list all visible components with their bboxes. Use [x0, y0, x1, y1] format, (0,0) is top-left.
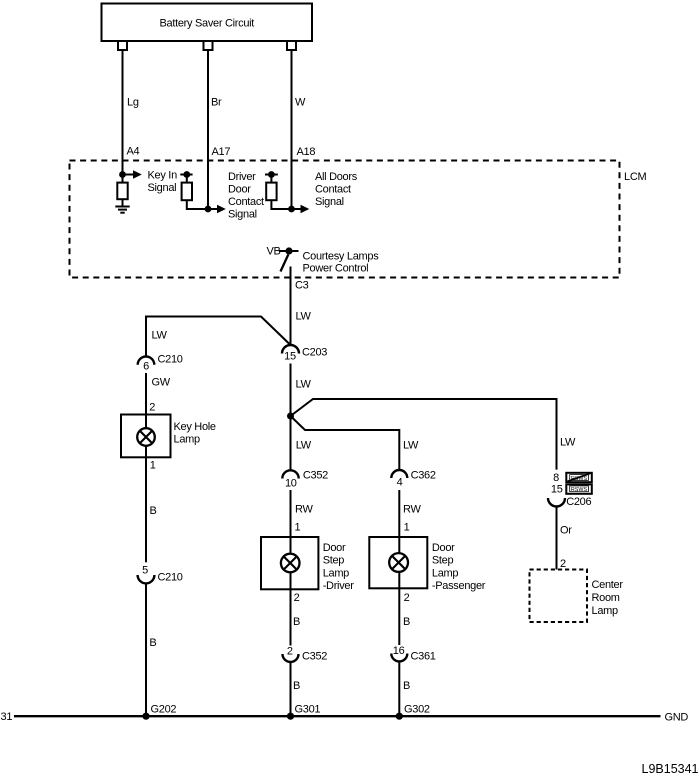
svg-text:C352: C352	[302, 651, 327, 663]
svg-text:-Passenger: -Passenger	[432, 580, 486, 592]
svg-text:1: 1	[295, 522, 301, 534]
svg-text:Lamp: Lamp	[432, 567, 458, 579]
label Door Step Lamp -Passenger	[432, 542, 486, 592]
node G301	[287, 704, 320, 720]
resistor all doors	[266, 183, 276, 201]
wire passenger lamp to C361	[398, 588, 400, 645]
svg-text:LW: LW	[560, 437, 576, 449]
svg-text:C210: C210	[158, 354, 183, 366]
svg-text:Lamp: Lamp	[174, 434, 200, 446]
svg-text:Step: Step	[432, 555, 454, 567]
connector C210 pin 5	[138, 565, 183, 584]
svg-text:8: 8	[553, 472, 559, 484]
svg-text:Center: Center	[592, 579, 624, 591]
wire Or	[556, 507, 558, 570]
ground bus 31	[14, 715, 661, 717]
wire C210 to G202	[145, 583, 147, 716]
svg-text:G302: G302	[404, 704, 430, 716]
node G302	[396, 704, 430, 720]
svg-text:2: 2	[287, 646, 293, 658]
connector C362 pin 4	[391, 470, 436, 489]
svg-text:2: 2	[404, 592, 410, 604]
svg-text:Lamp: Lamp	[323, 567, 349, 579]
resistor driver door	[182, 183, 192, 201]
svg-text:B: B	[149, 637, 156, 649]
svg-text:10: 10	[285, 478, 297, 490]
svg-text:VB: VB	[267, 246, 281, 258]
connector C352 pin 10	[282, 470, 328, 490]
svg-text:Courtesy Lamps: Courtesy Lamps	[303, 251, 380, 263]
svg-text:Battery Saver Circuit: Battery Saver Circuit	[160, 18, 255, 30]
wire Br	[207, 50, 209, 209]
svg-text:All Doors: All Doors	[315, 171, 358, 183]
node A17 junction	[205, 206, 212, 213]
svg-text:Room: Room	[592, 592, 620, 604]
ground	[115, 199, 129, 213]
svg-text:Lg: Lg	[127, 97, 139, 109]
all doors contact symbol	[265, 171, 278, 183]
wire all-doors resistor to junction	[271, 200, 291, 209]
svg-text:1: 1	[150, 460, 156, 472]
label Door Step Lamp -Driver	[323, 542, 355, 592]
door step lamp driver bulb	[281, 537, 300, 589]
svg-text:W: W	[295, 97, 306, 109]
wire branch to C206 column	[291, 399, 557, 470]
svg-text:Step: Step	[323, 555, 345, 567]
svg-text:GND: GND	[665, 712, 689, 724]
svg-text:C210: C210	[158, 572, 183, 584]
wire C203 to branch node	[290, 364, 292, 471]
svg-text:C361: C361	[411, 651, 436, 663]
connector C361 pin 16	[391, 645, 435, 663]
svg-text:1: 1	[404, 522, 410, 534]
svg-text:B: B	[150, 505, 157, 517]
connector C210 pin 6	[138, 354, 183, 373]
svg-text:Signal: Signal	[148, 182, 177, 194]
svg-text:B: B	[293, 680, 300, 692]
svg-text:16: 16	[393, 645, 405, 657]
key-in signal arrow	[123, 170, 142, 179]
svg-text:LCM: LCM	[624, 171, 646, 183]
svg-text:Signal: Signal	[315, 196, 344, 208]
svg-text:15: 15	[284, 351, 296, 363]
svg-text:31: 31	[1, 711, 13, 723]
connector C206	[548, 496, 591, 508]
svg-text:-Driver: -Driver	[323, 580, 355, 592]
svg-text:Key Hole: Key Hole	[174, 421, 216, 433]
svg-text:RW: RW	[295, 504, 313, 516]
option box RSWS crossed	[566, 473, 592, 482]
svg-text:LW: LW	[152, 330, 168, 342]
key hole lamp box	[121, 415, 171, 458]
node A4 key-in junction	[119, 171, 126, 178]
node branch junction	[287, 413, 294, 420]
wire VB to C203	[290, 267, 292, 346]
svg-text:RSWS: RSWS	[571, 487, 588, 493]
label All Doors Contact Signal	[315, 171, 358, 208]
door step lamp driver box	[261, 537, 318, 589]
svg-text:Contact: Contact	[228, 196, 264, 208]
svg-text:2: 2	[149, 402, 155, 414]
node A18 junction	[288, 206, 295, 213]
wire W	[291, 50, 293, 209]
driver signal arrow	[208, 205, 226, 214]
pin tab middle	[204, 41, 213, 50]
svg-text:Key In: Key In	[148, 170, 178, 182]
svg-text:A17: A17	[212, 146, 231, 158]
svg-text:Lamp: Lamp	[592, 605, 618, 617]
svg-text:LW: LW	[296, 311, 312, 323]
pin tab right	[287, 41, 296, 50]
all doors signal arrow	[292, 205, 310, 214]
wire Lg	[122, 50, 124, 183]
wire driver resistor to junction	[187, 200, 208, 209]
svg-text:2: 2	[560, 558, 566, 570]
wire key hole lamp to C210	[145, 457, 147, 562]
driver door contact symbol	[180, 171, 192, 183]
svg-text:6: 6	[143, 361, 149, 373]
svg-text:A18: A18	[297, 146, 316, 158]
svg-text:GW: GW	[152, 377, 171, 389]
svg-text:Or: Or	[560, 525, 572, 537]
wire C352 to G301	[290, 662, 292, 716]
svg-text:C3: C3	[295, 280, 309, 292]
wire branch to key hole column	[146, 317, 290, 357]
svg-text:C362: C362	[411, 470, 436, 482]
pin tab left	[118, 41, 127, 50]
svg-text:G301: G301	[295, 704, 321, 716]
svg-text:Driver: Driver	[228, 171, 256, 183]
svg-text:Signal: Signal	[228, 209, 257, 221]
svg-text:G202: G202	[151, 704, 177, 716]
svg-text:LW: LW	[296, 440, 312, 452]
svg-text:LW: LW	[296, 379, 312, 391]
svg-text:Br: Br	[211, 97, 222, 109]
connector C352 pin 2	[283, 646, 328, 663]
svg-text:A4: A4	[127, 146, 140, 158]
svg-text:2: 2	[294, 592, 300, 604]
option box RSWS	[566, 484, 592, 493]
svg-text:L9B15341: L9B15341	[642, 762, 699, 776]
svg-text:B: B	[293, 616, 300, 628]
svg-text:C206: C206	[566, 496, 591, 508]
door step lamp passenger bulb	[389, 537, 408, 588]
wire RW driver	[290, 490, 292, 537]
LCM dashed box	[70, 161, 620, 278]
wire GW	[145, 373, 147, 415]
svg-text:Door: Door	[228, 184, 251, 196]
label Key Hole Lamp	[174, 421, 216, 446]
wire RW passenger	[398, 490, 400, 537]
wire branch to C362 column	[291, 416, 400, 470]
svg-text:Power Control: Power Control	[303, 263, 369, 275]
svg-text:Contact: Contact	[315, 184, 351, 196]
svg-text:B: B	[403, 680, 410, 692]
svg-text:C203: C203	[302, 347, 327, 359]
courtesy lamps power control switch	[279, 247, 299, 271]
svg-text:C352: C352	[303, 470, 328, 482]
key hole lamp bulb	[137, 415, 155, 458]
svg-text:15: 15	[551, 484, 563, 496]
wire C361 to G302	[398, 662, 400, 717]
connector C203 pin 15	[282, 345, 327, 363]
resistor key-in pull-down	[117, 183, 127, 200]
door step lamp passenger box	[369, 537, 427, 588]
label Key In Signal	[148, 170, 178, 195]
svg-text:B: B	[403, 616, 410, 628]
label Driver Door Contact Signal	[228, 171, 264, 221]
label Center Room Lamp	[592, 579, 624, 617]
svg-text:Door: Door	[323, 542, 346, 554]
svg-text:RW: RW	[403, 504, 421, 516]
svg-text:Door: Door	[432, 542, 455, 554]
node G202	[142, 704, 176, 720]
center room lamp dashed box	[530, 570, 588, 623]
svg-text:5: 5	[142, 565, 148, 577]
wire driver lamp to C352	[290, 589, 292, 645]
svg-text:4: 4	[397, 477, 403, 489]
svg-text:LW: LW	[403, 440, 419, 452]
battery saver circuit box	[102, 4, 313, 42]
label Courtesy Lamps Power Control	[303, 251, 380, 275]
